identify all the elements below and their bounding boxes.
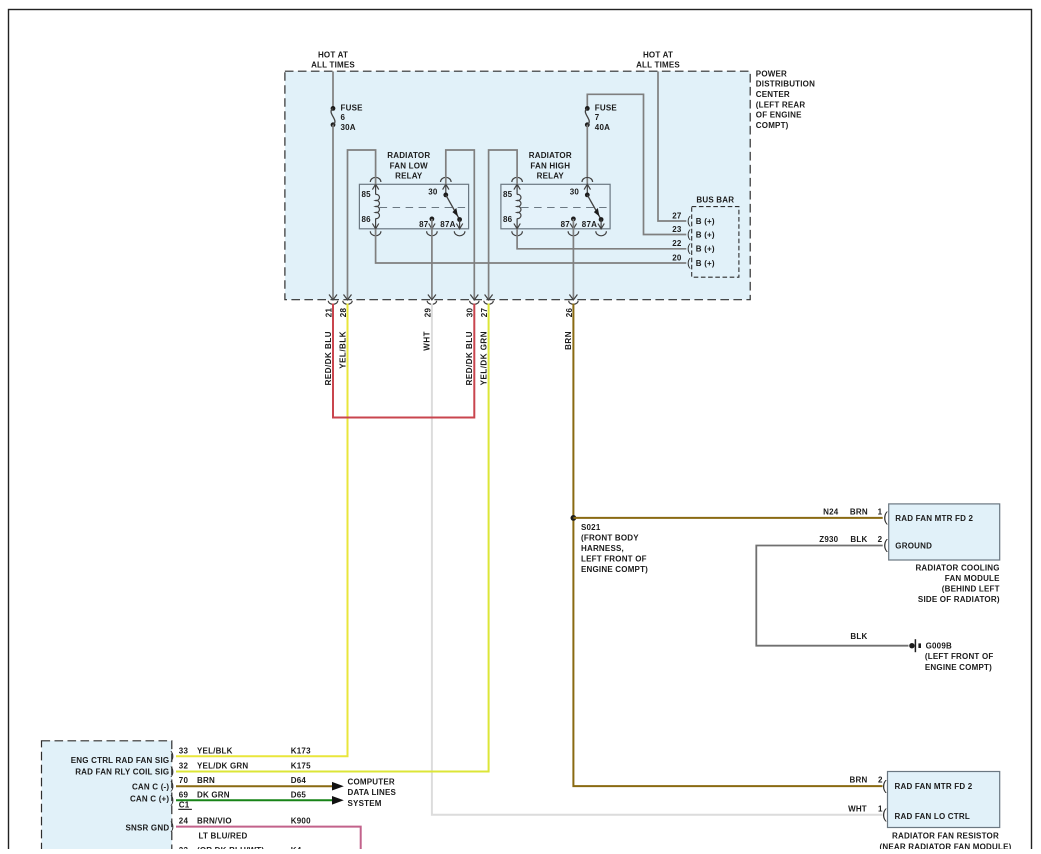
wire BRN PCM pin70 CAN C(-) data line <box>176 782 344 791</box>
PDC exit connector pin 21 (RED/DK BLU) <box>324 301 338 386</box>
svg-text:DATA LINES: DATA LINES <box>348 788 397 797</box>
svg-text:OF ENGINE: OF ENGINE <box>756 111 802 120</box>
svg-text:30: 30 <box>570 188 580 197</box>
svg-text:FUSE: FUSE <box>595 104 618 113</box>
module box RAD FAN MTR FD 2 / GROUND <box>889 504 1000 560</box>
power distribution center dashed box <box>285 71 750 300</box>
svg-text:DK GRN: DK GRN <box>197 790 230 799</box>
wire DK GRN PCM pin69 CAN C(+) data line <box>176 796 344 805</box>
svg-text:86: 86 <box>503 215 513 224</box>
wire high relay coil 86 to bus bar pin 22 <box>517 229 686 249</box>
svg-text:COMPUTER: COMPUTER <box>348 778 395 787</box>
svg-text:S021: S021 <box>581 523 601 532</box>
svg-text:WHT: WHT <box>423 331 432 351</box>
svg-text:20: 20 <box>672 253 682 262</box>
svg-text:RADIATOR COOLING: RADIATOR COOLING <box>915 564 999 573</box>
PCM pin 70 BRN D64 connector <box>170 776 306 792</box>
wire BRN/VIO PCM pin24 SNSR GND <box>176 827 361 852</box>
svg-text:C1: C1 <box>179 801 190 810</box>
svg-text:Z930: Z930 <box>819 535 838 544</box>
svg-text:CAN C (+): CAN C (+) <box>130 795 169 804</box>
svg-text:RAD FAN MTR FD 2: RAD FAN MTR FD 2 <box>895 514 973 523</box>
svg-text:RADIATOR: RADIATOR <box>529 151 572 160</box>
svg-text:RAD FAN LO CTRL: RAD FAN LO CTRL <box>895 812 970 821</box>
relay RADIATOR FAN HIGH RELAY <box>501 151 610 236</box>
svg-text:87A: 87A <box>582 220 597 229</box>
svg-text:B (+): B (+) <box>696 245 715 254</box>
svg-text:70: 70 <box>179 776 189 785</box>
label RADIATOR FAN RESISTOR (NEAR RADIATOR FAN MODULE) <box>879 832 1011 852</box>
svg-text:): ) <box>170 750 174 762</box>
partially visible bottom row <box>179 846 302 854</box>
wire bus bar 23 feed loop to fuse 7 <box>587 94 686 234</box>
svg-text:ALL TIMES: ALL TIMES <box>636 61 680 70</box>
svg-text:BRN: BRN <box>850 507 868 516</box>
PDC exit connector pin 26 (BRN) <box>564 301 578 350</box>
svg-text:B (+): B (+) <box>696 217 715 226</box>
svg-text:23: 23 <box>672 225 682 234</box>
fuse F7 (7, 40A) <box>585 104 618 132</box>
svg-text:85: 85 <box>361 190 371 199</box>
wire BLK module ground pin 2 to G009B <box>756 546 908 646</box>
svg-text:SNSR GND: SNSR GND <box>125 823 169 832</box>
fuse F6 (6, 30A) <box>331 104 363 132</box>
svg-text:BRN: BRN <box>850 776 868 785</box>
svg-text:YEL/BLK: YEL/BLK <box>197 746 233 755</box>
wire YEL/BLK pin28 to PCM pin 33 <box>176 304 348 757</box>
PCM pin 32 YEL/DK GRN K175 connector <box>170 762 311 778</box>
svg-text:(NEAR RADIATOR FAN MODULE): (NEAR RADIATOR FAN MODULE) <box>879 842 1011 849</box>
wire fuse 7 to high relay pin 30 <box>586 125 588 195</box>
svg-text:ENGINE COMPT): ENGINE COMPT) <box>925 663 992 672</box>
label G009B (LEFT FRONT OF ENGINE COMPT) <box>925 641 994 672</box>
connector pin 2 module (Z930 BLK) <box>819 535 888 552</box>
connector pin 1 module (N24 BRN) <box>823 507 888 524</box>
PCM pin 69 DK GRN D65 connector <box>170 790 306 806</box>
svg-text:22: 22 <box>672 239 682 248</box>
svg-text:87A: 87A <box>440 220 455 229</box>
svg-text:WHT: WHT <box>848 804 867 813</box>
svg-text:BRN: BRN <box>197 776 215 785</box>
svg-text:RADIATOR: RADIATOR <box>387 151 430 160</box>
label POWER DISTRIBUTION CENTER (LEFT REAR OF ENGINE COMPT) <box>756 69 815 130</box>
wire BRN splice S021 to RAD FAN MTR FD 2 (module) <box>573 517 882 519</box>
svg-text:POWER: POWER <box>756 69 787 78</box>
label S021 (FRONT BODY HARNESS, LEFT FRONT OF ENGINE COMPT) <box>581 523 648 574</box>
svg-text:B (+): B (+) <box>696 230 715 239</box>
svg-text:COMPT): COMPT) <box>756 121 789 130</box>
svg-text:SIDE OF RADIATOR): SIDE OF RADIATOR) <box>918 595 1000 604</box>
wire hot-at-all-times left feed to fuse 6 <box>332 72 334 109</box>
svg-text:K900: K900 <box>291 817 311 826</box>
wire RED/DK BLU pin21 to pin30 jumper <box>333 304 474 418</box>
svg-text:K175: K175 <box>291 762 311 771</box>
svg-text:87: 87 <box>419 220 429 229</box>
svg-text:(: ( <box>882 777 887 793</box>
svg-text:30A: 30A <box>341 123 356 132</box>
wire high relay 87 to PDC pin 26 exit <box>569 219 577 300</box>
svg-text:FAN LOW: FAN LOW <box>390 161 429 170</box>
svg-text:BRN: BRN <box>564 331 573 350</box>
svg-text:): ) <box>170 780 174 792</box>
svg-text:HARNESS,: HARNESS, <box>581 544 624 553</box>
PCM dashed connector box <box>42 741 172 854</box>
svg-text:BUS BAR: BUS BAR <box>696 196 734 205</box>
label BLK ground wire <box>850 632 867 641</box>
svg-text:32: 32 <box>179 762 189 771</box>
relay RADIATOR FAN LOW RELAY <box>359 151 468 236</box>
svg-text:27: 27 <box>672 211 682 220</box>
PDC exit connector pin 27 (YEL/DK GRN) <box>479 301 493 386</box>
svg-text:(: ( <box>687 228 691 240</box>
svg-text:YEL/DK GRN: YEL/DK GRN <box>197 762 248 771</box>
PCM pin 24 BRN/VIO K900 connector <box>170 817 311 833</box>
svg-text:(: ( <box>883 509 888 525</box>
svg-text:(: ( <box>687 243 691 255</box>
PDC exit connector pin 29 (WHT) <box>423 301 437 351</box>
svg-text:33: 33 <box>179 746 189 755</box>
svg-text:): ) <box>170 794 174 806</box>
svg-text:HOT AT: HOT AT <box>318 50 348 59</box>
connector pin 1 resistor (WHT) <box>848 804 887 821</box>
label HOT AT ALL TIMES (right feed) <box>636 50 680 69</box>
bus bar pin 22 B(+) <box>672 239 715 255</box>
svg-text:(FRONT BODY: (FRONT BODY <box>581 534 639 543</box>
svg-text:): ) <box>170 821 174 833</box>
wire BRN pin26 to splice and RAD FAN MTR FD 2 (resistor) <box>573 304 882 787</box>
svg-text:GROUND: GROUND <box>895 542 932 551</box>
svg-text:K173: K173 <box>291 746 311 755</box>
label C1 connector <box>178 801 192 810</box>
wire PDC pin 28 to low relay coil 85 <box>344 150 376 300</box>
wire hot-at-all-times right feed to bus bar pin 27 <box>658 72 686 222</box>
svg-text:FAN HIGH: FAN HIGH <box>530 161 570 170</box>
svg-text:(LEFT FRONT OF: (LEFT FRONT OF <box>925 652 994 661</box>
svg-text:YEL/DK GRN: YEL/DK GRN <box>479 331 488 385</box>
svg-text:(BEHIND LEFT: (BEHIND LEFT <box>942 585 1000 594</box>
svg-text:ENGINE COMPT): ENGINE COMPT) <box>581 565 648 574</box>
svg-text:DISTRIBUTION: DISTRIBUTION <box>756 80 815 89</box>
svg-text:BLK: BLK <box>850 632 867 641</box>
svg-text:BLK: BLK <box>850 535 867 544</box>
svg-text:BRN/VIO: BRN/VIO <box>197 817 232 826</box>
wire PDC pin 27 to high relay coil 85 <box>485 150 517 300</box>
svg-text:RAD FAN RLY COIL SIG: RAD FAN RLY COIL SIG <box>75 768 169 777</box>
wire YEL/DK GRN pin27 to PCM pin 32 <box>176 304 489 772</box>
svg-text:N24: N24 <box>823 507 839 516</box>
PCM signal name labels <box>71 756 170 832</box>
svg-text:7: 7 <box>595 113 600 122</box>
svg-text:24: 24 <box>179 817 189 826</box>
svg-text:RADIATOR FAN RESISTOR: RADIATOR FAN RESISTOR <box>892 832 999 841</box>
label COMPUTER DATA LINES SYSTEM <box>348 778 397 809</box>
wire low relay coil 86 to bus bar pin 20 <box>376 229 687 263</box>
PDC exit connector pin 30 (RED/DK BLU) <box>465 301 479 386</box>
svg-text:85: 85 <box>503 190 513 199</box>
svg-text:6: 6 <box>341 113 346 122</box>
svg-text:RED/DK BLU: RED/DK BLU <box>465 331 474 385</box>
svg-text:G009B: G009B <box>926 641 952 650</box>
svg-text:(: ( <box>883 536 888 552</box>
svg-text:RAD FAN MTR FD 2: RAD FAN MTR FD 2 <box>895 782 973 791</box>
resistor box RAD FAN MTR FD 2 / RAD FAN LO CTRL <box>888 772 1000 828</box>
svg-text:69: 69 <box>179 790 189 799</box>
svg-text:(: ( <box>687 215 691 227</box>
label BUS BAR <box>696 196 734 205</box>
svg-text:(LEFT REAR: (LEFT REAR <box>756 100 806 109</box>
ground G009B symbol <box>909 639 921 652</box>
svg-text:1: 1 <box>878 804 883 813</box>
label LT BLU/RED (next circuit) <box>199 831 248 840</box>
svg-text:87: 87 <box>561 220 571 229</box>
PDC exit connector pin 28 (YEL/BLK) <box>338 301 352 369</box>
wire low relay pin 30 to PDC pin 30 exit <box>446 150 479 300</box>
svg-text:): ) <box>170 765 174 777</box>
svg-text:YEL/BLK: YEL/BLK <box>338 331 347 369</box>
svg-text:(: ( <box>687 257 691 269</box>
svg-text:CAN C (-): CAN C (-) <box>132 783 169 792</box>
bus bar pin 23 B(+) <box>672 225 715 241</box>
svg-text:RED/DK BLU: RED/DK BLU <box>324 331 333 385</box>
svg-text:(: ( <box>882 805 887 821</box>
svg-text:2: 2 <box>878 535 883 544</box>
svg-text:FAN MODULE: FAN MODULE <box>945 574 1000 583</box>
svg-text:40A: 40A <box>595 123 610 132</box>
PCM pin 33 YEL/BLK K173 connector <box>170 746 311 762</box>
connector pin 2 resistor (BRN) <box>850 776 888 793</box>
wire WHT pin29 to RAD FAN LO CTRL <box>432 304 883 815</box>
svg-text:30: 30 <box>428 188 438 197</box>
svg-text:ENG CTRL RAD FAN SIG: ENG CTRL RAD FAN SIG <box>71 756 170 765</box>
svg-text:B (+): B (+) <box>696 259 715 268</box>
splice S021 junction dot <box>571 515 577 521</box>
label HOT AT ALL TIMES (left feed) <box>311 50 355 69</box>
svg-text:RELAY: RELAY <box>537 172 565 181</box>
svg-text:2: 2 <box>878 776 883 785</box>
bus bar dashed box <box>692 207 739 278</box>
bus bar pin 20 B(+) <box>672 253 715 269</box>
svg-text:HOT AT: HOT AT <box>643 50 673 59</box>
wire low relay 87 to PDC pin 29 exit <box>428 219 436 300</box>
svg-text:LEFT FRONT OF: LEFT FRONT OF <box>581 554 647 563</box>
wire fuse 6 to PDC pin 21 exit <box>329 125 337 300</box>
svg-text:SYSTEM: SYSTEM <box>348 799 382 808</box>
svg-text:CENTER: CENTER <box>756 90 790 99</box>
bus bar pin 27 B(+) <box>672 211 715 227</box>
svg-text:LT BLU/RED: LT BLU/RED <box>199 831 248 840</box>
svg-text:D64: D64 <box>291 776 307 785</box>
svg-text:FUSE: FUSE <box>341 104 364 113</box>
svg-text:1: 1 <box>878 507 883 516</box>
svg-text:ALL TIMES: ALL TIMES <box>311 61 355 70</box>
label RADIATOR COOLING FAN MODULE (BEHIND LEFT SIDE OF RADIATOR) <box>915 564 1000 605</box>
svg-text:86: 86 <box>361 215 371 224</box>
svg-text:D65: D65 <box>291 790 307 799</box>
svg-text:RELAY: RELAY <box>395 172 423 181</box>
